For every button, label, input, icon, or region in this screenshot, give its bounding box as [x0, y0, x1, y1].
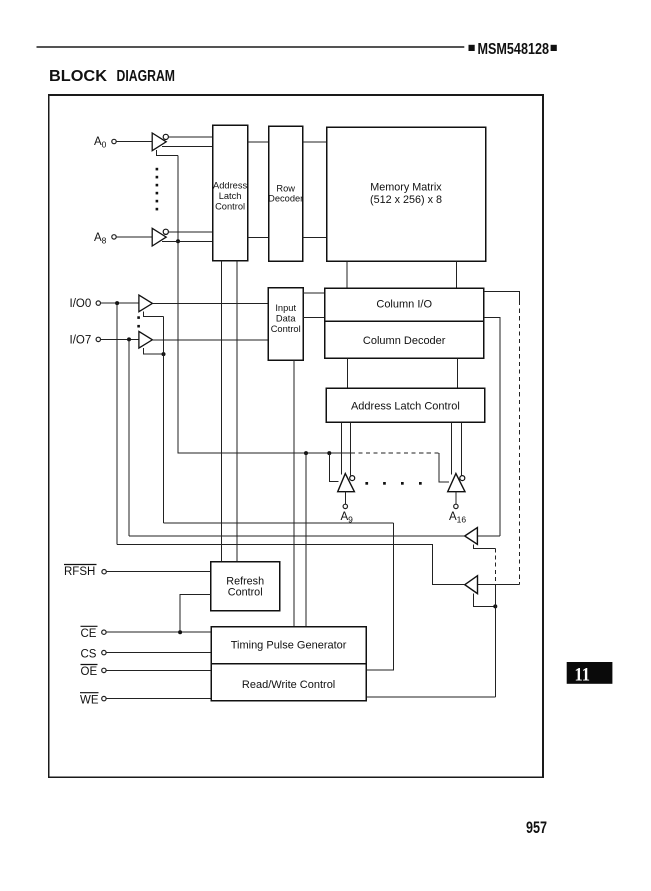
buffer output driver 2 [465, 576, 478, 594]
block U10 Read/Write Control [211, 664, 366, 701]
pin A9 terminal [343, 504, 347, 508]
wire A8 true output to latch control [162, 240, 213, 242]
wire vertical bus x117 to output buffer 2 [116, 303, 118, 544]
svg-text:Timing Pulse Generator: Timing Pulse Generator [231, 640, 347, 652]
svg-text:WE: WE [80, 694, 99, 706]
wire read write net to RWC box [366, 696, 495, 698]
node junction write bus [162, 352, 166, 356]
wire I/O0 buffer output to input data control [152, 302, 268, 304]
block U8 Refresh Control [211, 562, 280, 611]
wire vertical bus x129 to output buffer 1 [128, 339, 130, 536]
wire vertical feedback bus x178 [177, 156, 179, 454]
wire Column IO right elbow to buffer 1 input bus [484, 317, 500, 536]
svg-text:OE: OE [81, 666, 98, 678]
svg-text:I/O0: I/O0 [70, 298, 92, 310]
wire ALC2 to A9 latch line2 [350, 422, 352, 475]
wire I/O7 buffer output to input data control [152, 339, 268, 341]
block U7 Address Latch Control (column) [326, 388, 485, 422]
svg-text:Memory Matrix: Memory Matrix [370, 181, 442, 193]
node junction I/O0 line [115, 301, 119, 305]
svg-text:Data: Data [276, 313, 296, 323]
pin OE terminal [102, 668, 106, 672]
wire matrix to Column IO right [455, 261, 457, 288]
wire I/O7 buffer lower elbow [144, 348, 164, 354]
wire I/O0 buffer lower elbow [144, 312, 164, 317]
header rule [37, 46, 465, 48]
wire Row Decoder to matrix bottom [303, 237, 327, 239]
buffer A9 address latch [338, 474, 355, 492]
pin I/O0 terminal [96, 301, 100, 305]
overline WE [80, 692, 99, 694]
wire CS to timing pulse generator [106, 652, 211, 654]
wire CE branch to refresh control [180, 594, 211, 632]
svg-text:Address Latch Control: Address Latch Control [351, 400, 460, 412]
svg-text:Refresh: Refresh [226, 575, 264, 587]
bubble A9 latch [350, 476, 355, 481]
pin A16 terminal [454, 504, 458, 508]
svg-text:Row: Row [276, 184, 295, 194]
wire A0 true output to latch control [162, 146, 213, 148]
svg-text:Decoder: Decoder [268, 194, 303, 204]
svg-text:11: 11 [575, 665, 591, 686]
svg-text:CS: CS [81, 648, 97, 660]
svg-text:957: 957 [526, 819, 547, 837]
wire ALC to Row Decoder bottom [248, 237, 269, 239]
wire ALC to Row Decoder top [248, 141, 269, 143]
pin A0 terminal [112, 139, 116, 143]
wire OE wrap horizontal [164, 522, 394, 524]
node junction on A8 true output [176, 239, 180, 243]
block U6 Column Decoder [325, 321, 484, 358]
wire IDC to Column IO lower [303, 316, 324, 318]
block U1 Address Latch Control (row) [213, 125, 248, 261]
wire ALC bus left to refresh control [221, 261, 223, 562]
wire buffer 1 lower stub [473, 544, 495, 548]
overline RFSH [64, 564, 97, 566]
wire buffer 2 lower stub [473, 594, 495, 607]
wire enable elbow into A16 latch [439, 453, 449, 482]
node junction CE branch [178, 630, 182, 634]
wire read write net vertical [494, 585, 496, 697]
wire output buffer 1 to I/O7 bus [129, 535, 465, 537]
wire Column IO right elbow to dashed bus [484, 291, 520, 301]
block U4 Input Data Control [268, 288, 303, 361]
bubble A0 inverted output [163, 134, 168, 139]
svg-text:Control: Control [228, 587, 263, 599]
wire RFSH to refresh control [106, 571, 210, 573]
wire A0 pin to buffer [116, 141, 152, 143]
block U9 Timing Pulse Generator [211, 627, 366, 664]
wire output buffer 1 input line [477, 535, 500, 537]
buffer A0 input latch [152, 133, 166, 151]
svg-text:Control: Control [271, 324, 301, 334]
page tab 11 [567, 662, 613, 686]
wire vertical bus x163 to OE wrap [163, 317, 165, 523]
wire output buffer 2 to I/O0 bus [117, 544, 465, 584]
node junction enable to timing bus [304, 451, 308, 455]
pin RFSH terminal [102, 570, 106, 574]
bubble A8 inverted output [163, 229, 168, 234]
wire latch enable line dashed part [351, 452, 439, 454]
svg-text:Column Decoder: Column Decoder [363, 335, 446, 347]
wire OE wrap vertical and into RWC [366, 523, 393, 670]
svg-text:Input: Input [275, 303, 296, 313]
svg-text:CE: CE [81, 628, 97, 640]
buffer A8 input latch [152, 228, 166, 246]
wire A9 latch output stem [344, 492, 346, 505]
wire A8 pin to buffer [116, 236, 152, 238]
wire enable elbow into A9 latch [329, 453, 338, 481]
svg-text:(512 x 256) x 8: (512 x 256) x 8 [370, 194, 442, 206]
header left square bullet [469, 45, 475, 51]
svg-text:I/O7: I/O7 [70, 334, 92, 346]
wire bus x306 to timing generator [305, 453, 307, 626]
wire Row Decoder to matrix top [303, 141, 327, 143]
ellipsis dots between A0 and A8 buffers [156, 168, 159, 211]
overline OE [81, 664, 98, 666]
wire dashed stub to buffer 2 input [494, 548, 496, 584]
block U3 Memory Matrix [327, 127, 486, 261]
wire CE to timing pulse generator [106, 631, 211, 633]
wire IDC to Column IO upper [303, 292, 324, 294]
ellipsis dots between I/O buffers [137, 316, 140, 327]
overline CE [81, 625, 98, 627]
wire OE to read write control [106, 669, 211, 671]
svg-text:RFSH: RFSH [64, 566, 95, 578]
pin I/O7 terminal [96, 337, 100, 341]
wire WE to read write control [106, 698, 211, 700]
bubble A16 latch [460, 476, 465, 481]
wire Column Decoder to ALC2 right [457, 358, 459, 388]
buffer I/O0 input [139, 295, 153, 312]
svg-text:Read/Write Control: Read/Write Control [242, 679, 335, 691]
node junction I/O7 line [127, 337, 131, 341]
wire A0 inverted output to latch control [169, 136, 213, 138]
svg-text:Control: Control [215, 202, 245, 212]
wire A0 buffer feedback elbow [156, 150, 178, 156]
wire latch enable line solid part [178, 452, 351, 454]
node junction enable to A9 latch [327, 451, 331, 455]
svg-text:Address: Address [213, 181, 247, 191]
block U5 Column I/O [325, 288, 484, 321]
pin CE terminal [102, 630, 106, 634]
chip boundary frame [49, 95, 543, 777]
wire ALC2 to A9 latch line1 [341, 422, 343, 474]
wire matrix to Column IO left [346, 261, 348, 288]
svg-text:Latch: Latch [219, 191, 242, 201]
wire ALC bus right to refresh control [236, 261, 238, 562]
node junction read write net [493, 604, 497, 608]
wire ALC2 to A16 latch line1 [451, 422, 453, 474]
block U2 Row Decoder [268, 126, 303, 261]
wire Column Decoder to ALC2 left [347, 358, 349, 388]
buffer A16 address latch [448, 474, 465, 492]
wire output buffer 2 input line [478, 584, 520, 586]
svg-text:MSM548128: MSM548128 [478, 41, 550, 58]
buffer output driver 1 [465, 528, 478, 545]
pin WE terminal [102, 696, 106, 700]
wire IDC bottom bus to timing generator [293, 360, 295, 626]
pin CS terminal [102, 650, 106, 654]
wire A16 latch output stem [455, 492, 457, 505]
svg-text:Column I/O: Column I/O [376, 298, 432, 310]
wire A8 inverted output to latch control [169, 231, 213, 233]
wire dashed bus x519 down to output buffer 2 input [518, 301, 520, 585]
wire I/O0 pin to buffer [101, 302, 139, 304]
header right square bullet [551, 45, 557, 51]
ellipsis dots between address latches [365, 482, 421, 485]
wire I/O7 pin to buffer [101, 338, 139, 340]
pin A8 terminal [112, 235, 116, 239]
buffer I/O7 input [139, 331, 153, 348]
wire ALC2 to A16 latch line2 [461, 422, 463, 475]
